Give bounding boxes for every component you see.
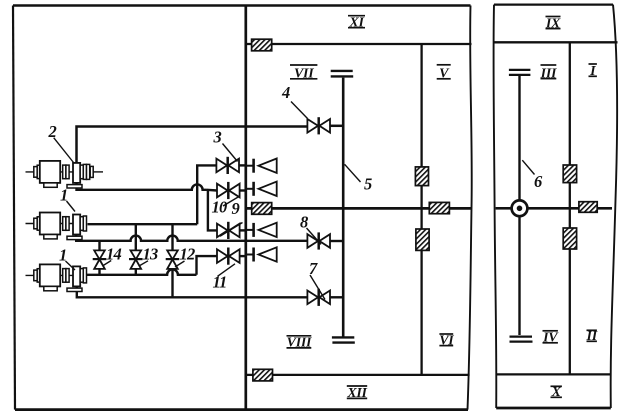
leader line 7 — [310, 275, 325, 300]
compartment divider I/II — [569, 42, 571, 374]
funnel suction row 2 — [247, 182, 277, 196]
penetration divider lower right — [563, 228, 576, 249]
svg-text:9: 9 — [232, 199, 240, 218]
valve 13 — [129, 250, 143, 269]
leader line 14 — [103, 261, 111, 266]
right section right wavy edge — [611, 5, 618, 408]
svg-text:12: 12 — [180, 245, 195, 264]
compartment label II — [586, 329, 598, 344]
bilge suction pipe to valve 7 — [77, 287, 308, 298]
suction manifold pipe to valve 8 — [76, 235, 307, 241]
valve 11 outlet to bulkhead — [240, 255, 246, 257]
pump 2 pedestal — [67, 185, 82, 188]
compartment label I — [589, 64, 597, 79]
pipe valve 7 to air pipe 5 — [330, 296, 343, 298]
compartment label XII — [346, 386, 367, 401]
valve 10 outlet to bulkhead — [240, 189, 246, 191]
outer bottom boundary line — [15, 408, 468, 411]
valve 7 — [307, 289, 330, 306]
leader line 3 — [223, 144, 238, 162]
sounding pipe 6 vertical — [518, 76, 520, 335]
deck line under XI — [246, 43, 472, 45]
deck head fitting (circle) — [512, 200, 528, 216]
right section top line — [494, 3, 613, 5]
main pipe through middle section — [246, 207, 471, 210]
valve 3 — [216, 157, 239, 174]
bulkhead penetration on deck XI — [252, 39, 272, 51]
left hull border — [13, 6, 15, 410]
penetration divider upper right — [563, 165, 576, 183]
funnel suction row 3 — [247, 223, 277, 237]
valve 9 outlet to bulkhead — [240, 229, 246, 231]
air pipe 5 foot (bottom) — [332, 337, 355, 342]
leader line 4 — [291, 102, 308, 119]
pipe valve4 to air pipe 5 — [330, 125, 343, 128]
right section bottom line — [496, 407, 611, 410]
pump 1 lower discharge pipe — [86, 269, 197, 274]
deck line over X — [497, 373, 611, 375]
pipe valve 8 to air pipe 5 — [330, 240, 343, 242]
compartment label VII — [290, 65, 317, 82]
valve 14 top stub — [98, 241, 100, 250]
valve 10 — [217, 182, 240, 199]
engine-room bulkhead — [244, 6, 247, 410]
leader line 12 — [175, 261, 185, 267]
leader line 2 — [54, 138, 75, 164]
svg-text:14: 14 — [106, 245, 121, 264]
sounding pipe foot bottom — [510, 337, 533, 342]
compartment divider V/VI — [420, 44, 422, 375]
valve 8 — [307, 232, 330, 249]
compartment label IX — [545, 16, 561, 31]
penetration on divider (main pipe) — [429, 202, 449, 213]
valve 14 bottom stub — [98, 269, 100, 275]
svg-text:13: 13 — [143, 245, 158, 264]
funnel suction row 4 — [247, 247, 277, 261]
compartment label IV — [542, 331, 559, 346]
compartment label XI — [348, 16, 365, 31]
compartment label III — [540, 65, 557, 81]
valve 11 feed riser — [197, 256, 218, 275]
penetration on divider upper — [415, 167, 428, 186]
valve 13 bottom stub — [135, 269, 137, 275]
air pipe 5 head (top) — [331, 71, 354, 77]
pump 2 unit — [26, 161, 87, 187]
svg-text:2: 2 — [48, 122, 57, 141]
leader line 13 — [139, 261, 148, 266]
leader line 6 — [522, 160, 534, 174]
pump 1 upper discharge pipe — [88, 223, 198, 225]
right section left wavy edge — [494, 5, 497, 408]
bulkhead penetration on deck XII — [253, 369, 273, 381]
svg-text:4: 4 — [281, 83, 290, 102]
valve 9 — [217, 222, 240, 239]
deck line over XII — [246, 374, 470, 376]
leader line 9 — [220, 223, 243, 237]
penetration at bulkhead on main pipe — [252, 203, 272, 215]
compartment label V — [437, 65, 451, 82]
svg-text:5: 5 — [364, 175, 372, 194]
svg-text:3: 3 — [213, 128, 222, 147]
pump 1 lower pedestal — [67, 288, 82, 291]
valve 14 — [93, 250, 107, 269]
main pipe right section (right of air head) — [528, 207, 613, 210]
leader line 5 — [345, 164, 361, 182]
funnel suction row 1 — [247, 159, 277, 173]
svg-text:10: 10 — [212, 198, 227, 217]
pump 2 discharge lower pipe — [77, 183, 217, 191]
deck line under IX — [494, 41, 618, 43]
valve 4 supply pipe from pump 2 — [77, 127, 308, 164]
valve 12 — [166, 250, 180, 269]
valve 3 feed riser — [197, 165, 217, 224]
outer top boundary line — [13, 4, 471, 7]
sounding pipe head top — [509, 70, 531, 75]
penetration on main pipe right — [579, 202, 597, 213]
valve 12 bottom drop — [171, 269, 173, 297]
valve 11 — [217, 248, 240, 265]
compartment label VIII — [287, 336, 312, 351]
leader line 1 lower — [66, 261, 76, 270]
valve 4 — [307, 117, 330, 134]
branch drop to valve 13 — [135, 224, 137, 250]
valve 3 outlet to bulkhead — [239, 164, 246, 166]
leader line 8 — [307, 228, 322, 244]
hull break wavy edge (middle section right) — [468, 6, 472, 410]
air pipe 5 vertical — [342, 78, 345, 337]
valve 9 feed drop — [208, 191, 217, 231]
pump 1 lower unit — [26, 264, 87, 290]
leader line 11 — [218, 264, 236, 277]
main pipe right section (left of air head) — [496, 207, 512, 210]
compartment label X — [551, 385, 562, 400]
leader line 1 upper — [67, 201, 76, 212]
pump 1 upper pedestal — [67, 236, 82, 239]
pump 1 upper unit — [26, 213, 87, 239]
pump 2 extra flanges — [87, 164, 104, 179]
leader line 10 — [223, 197, 239, 207]
branch drop to valve 12 — [171, 224, 173, 250]
compartment label VI — [439, 333, 454, 348]
penetration on divider lower — [416, 229, 429, 250]
